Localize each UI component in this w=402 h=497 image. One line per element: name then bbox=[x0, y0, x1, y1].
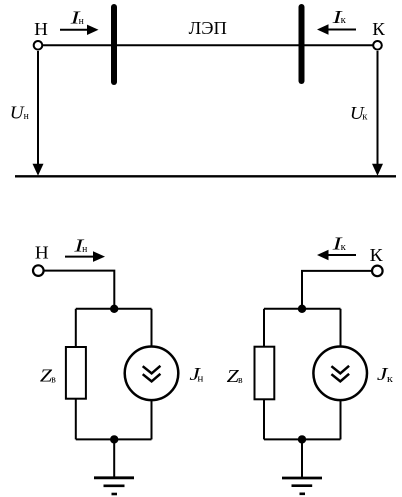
svg-text:к: к bbox=[341, 14, 347, 26]
svg-text:н: н bbox=[82, 243, 87, 255]
svg-text:н: н bbox=[24, 110, 29, 122]
svg-text:U: U bbox=[10, 103, 25, 123]
svg-text:ЛЭП: ЛЭП bbox=[189, 18, 227, 38]
svg-text:к: к bbox=[362, 111, 368, 123]
svg-text:в: в bbox=[238, 374, 243, 386]
svg-text:К: К bbox=[370, 245, 384, 265]
svg-text:н: н bbox=[79, 15, 84, 27]
svg-text:к: к bbox=[387, 373, 394, 385]
svg-text:к: к bbox=[341, 241, 347, 253]
svg-text:н: н bbox=[197, 372, 203, 384]
svg-text:Н: Н bbox=[34, 19, 48, 39]
svg-text:К: К bbox=[372, 19, 386, 39]
svg-text:в: в bbox=[51, 373, 56, 385]
svg-text:Н: Н bbox=[35, 243, 49, 263]
